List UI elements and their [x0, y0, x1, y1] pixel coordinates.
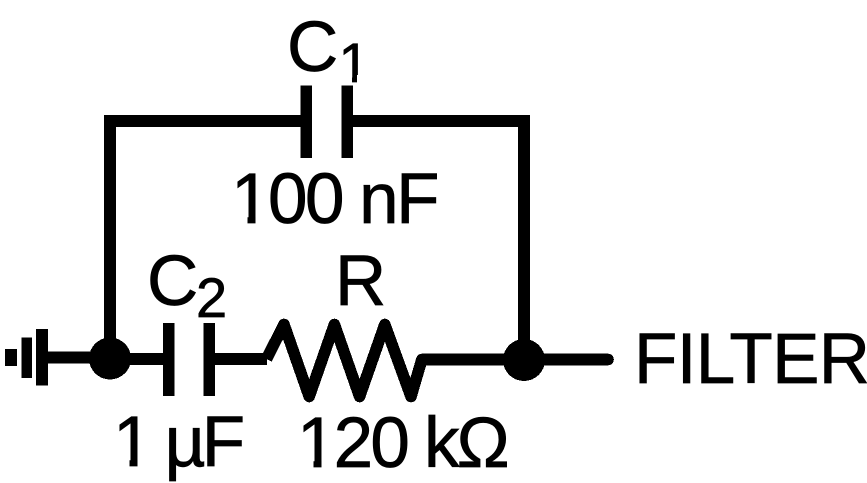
- capacitor C1 left plate: [301, 86, 313, 158]
- svg-text:C: C: [287, 8, 338, 87]
- wire: resistor to node B and output stub: [422, 354, 608, 366]
- node A junction dot: [89, 338, 131, 380]
- ground symbol (input, pointing left) : small bar: [5, 349, 17, 366]
- svg-text:C: C: [147, 242, 198, 321]
- resistor R zigzag: [267, 325, 423, 397]
- wire: C2 right plate to resistor: [215, 353, 267, 365]
- wire: node A to C2 left plate: [110, 353, 163, 365]
- svg-text:100 nF: 100 nF: [231, 160, 437, 239]
- wire: top rail from C1 right plate + right vertical down to node B: [352, 121, 524, 360]
- ground symbol middle bar: [21, 338, 31, 379]
- ground symbol tall bar: [36, 329, 48, 386]
- svg-text:2: 2: [196, 266, 227, 329]
- capacitor C1 right plate: [342, 86, 354, 158]
- svg-text:1: 1: [339, 31, 370, 94]
- capacitor C2 right plate: [203, 323, 215, 396]
- svg-text:FILTER: FILTER: [634, 320, 867, 399]
- wire: ground to node A: [46, 352, 110, 364]
- node B junction dot: [503, 339, 545, 381]
- svg-text:1 µF: 1 µF: [113, 403, 243, 482]
- capacitor C2 left plate: [163, 323, 175, 396]
- svg-text:120 kΩ: 120 kΩ: [297, 404, 508, 483]
- wire: left vertical + top rail to C1 left plate: [110, 121, 301, 358]
- svg-text:R: R: [335, 242, 386, 321]
